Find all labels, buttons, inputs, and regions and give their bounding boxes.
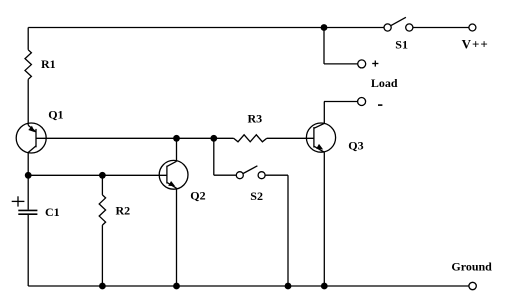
svg-text:R3: R3 [248,112,263,126]
svg-text:C1: C1 [45,205,60,219]
svg-text:Q2: Q2 [190,188,205,202]
svg-text:Q3: Q3 [348,139,363,153]
svg-text:S2: S2 [250,189,263,203]
svg-text:S1: S1 [395,38,408,52]
svg-text:R2: R2 [116,204,131,218]
svg-text:Load: Load [371,76,398,90]
svg-text:Q1: Q1 [48,107,63,121]
svg-text:Ground: Ground [451,260,492,274]
svg-text:R1: R1 [41,57,56,71]
svg-text:V++: V++ [462,37,489,52]
